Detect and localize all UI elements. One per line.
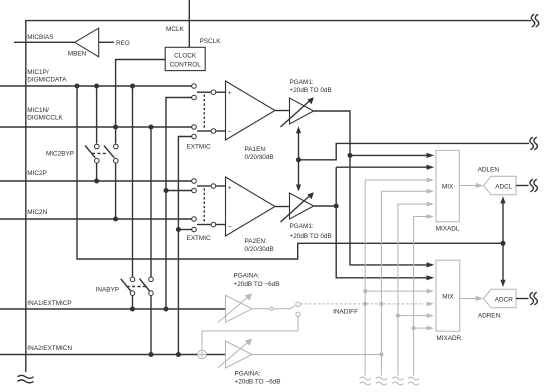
arrow source4 to MIXADL [427,214,434,219]
svg-text:MIX: MIX [442,183,454,190]
wire source3 to MIXADR [398,315,428,317]
junction digmic at ADC link [501,241,506,246]
svg-text:EXTMIC: EXTMIC [187,235,212,242]
svg-text:MIXADR: MIXADR [436,335,461,342]
wire INA2 [0,354,198,356]
buffer MBEN [75,28,99,57]
wire INABYP to INA2 [150,296,152,355]
svg-text:CLOCK: CLOCK [174,53,197,60]
break squiggle source 3 [392,377,403,385]
wire clock control to DIGMICCLK [116,60,166,144]
arrow PGAM1 to MIXADL [427,153,435,158]
junction MIC2N bypass [113,217,118,222]
svg-text:INA1/EXTMICP: INA1/EXTMICP [27,300,71,307]
junction PGAINA2 mix net [379,353,383,357]
wire PA2 minus alt contact [178,229,191,231]
svg-text:ADREN: ADREN [478,313,501,320]
wire PGAINA2 output [252,354,381,356]
arrow source1 to MIXADL [427,178,434,183]
wire PGAINA1 output [252,308,270,310]
amplifier PGAM2 [281,192,314,222]
svg-text:PSCLK: PSCLK [200,38,222,45]
wire EXTMICP routing vertical [166,98,192,310]
wire DIGMICDATA route to ADC [77,86,503,259]
amplifier PGAM1 [281,97,314,127]
wire PA2 minus input [216,224,226,226]
wire PA1 minus input [216,130,226,132]
wire REG [99,41,114,43]
junction source3 adr [396,314,400,318]
junction MIC1P bypass [94,84,99,89]
svg-text:+20dB TO 0dB: +20dB TO 0dB [290,233,332,240]
wire mix source 1 [365,180,427,376]
op-amp PA2 [226,177,276,236]
junction MIC1N clock [113,125,118,130]
svg-text:MIXADL: MIXADL [436,226,460,233]
arrow PGAM2 to MIXADL [427,165,435,170]
wire summer to PGAINA2 [206,354,225,356]
svg-text:−: − [228,224,232,231]
arrow PGAM2 to MIXADR [427,275,435,280]
svg-text:MIC2BYP: MIC2BYP [46,151,74,158]
arrow to MIXADR input4 [427,326,434,331]
wire INADIFF sum path [202,317,298,351]
arrow into PGAM1 [296,126,301,133]
wire EXTMICN routing vertical [178,137,191,355]
svg-text:MIC1N/: MIC1N/ [27,107,49,114]
break squiggle ADCR [530,292,537,305]
svg-text:PGAINA:: PGAINA: [235,371,261,378]
wire MICBIAS [14,41,75,43]
wire MIC1P [0,85,192,87]
svg-text:+20dB TO −6dB: +20dB TO −6dB [235,379,281,386]
wire PGAM1 output [314,111,428,265]
boundary break squiggle bottom left [18,375,34,383]
arrow into PGAM2 [296,185,301,192]
wire MCLK [188,0,190,47]
wire PGAM control junction [299,132,530,187]
wire MIC1P to INABYP [132,86,134,277]
svg-text:0/20/30dB: 0/20/30dB [245,246,274,253]
arrow into ADCL [476,183,484,188]
junction MIC2P bypass [94,179,99,184]
wire PA1 to PGAM1 [275,110,290,112]
wire MIXADL to ADCL [459,185,477,187]
wire MIXADR to ADCR [460,298,477,300]
arrow into ADCR [476,296,484,301]
adc ADCR [484,289,517,308]
svg-text:EXTMIC: EXTMIC [187,144,212,151]
break squiggle source 4 [408,377,419,385]
svg-text:+20dB TO −6dB: +20dB TO −6dB [234,281,280,288]
wire MIC2N [0,218,192,220]
svg-text:REG: REG [116,40,130,47]
junction inadiff source2 [379,302,383,306]
amplifier PGAINA2 [218,338,252,368]
wire PA2 to PGAM2 [275,206,290,208]
switch MIC2BYP [85,144,118,163]
wire MIC1N to INABYP [150,127,152,277]
junction MIC1N ina [149,125,154,130]
junction source4 adr [412,326,416,330]
svg-text:PGAM1:: PGAM1: [290,79,314,86]
wire PA2 plus alt contact [166,190,192,192]
switch INABYP [121,277,154,296]
junction MIC1P digmic [75,84,80,89]
arrow to MIXADR input3 [427,313,434,318]
svg-text:MICBIAS: MICBIAS [27,34,53,41]
wire ADCL ADCR link [502,203,504,281]
amplifier PGAINA1 [218,293,252,322]
svg-text:PGAM1:: PGAM1: [290,223,314,230]
arrow into ADCL bottom [500,196,505,203]
junction source1 adr [363,289,367,293]
mixer MIXADL [436,150,459,221]
wire INADIFF control line [300,303,424,305]
break squiggle ADCL [530,179,537,192]
svg-text:ADLEN: ADLEN [478,167,500,174]
svg-text:−: − [228,129,232,136]
wire ADCL output [516,185,529,187]
svg-text:PGAINA:: PGAINA: [234,273,260,280]
svg-text:MIC2P: MIC2P [27,170,47,177]
wire ADCR output [516,298,529,300]
wire PGAM2 output [314,167,428,278]
wire PA1 plus input [216,91,226,93]
arrow PGAM1 to MIXADR [427,262,435,267]
svg-text:INA2/EXTMICN: INA2/EXTMICN [27,345,72,352]
op-amp PA1 [226,81,276,140]
junction PGAM control [296,157,301,162]
svg-text:+: + [228,90,232,97]
arrow source2 to MIXADL [427,189,434,194]
break squiggle source 1 [360,377,371,385]
svg-text:DIGMICCLK: DIGMICCLK [27,115,63,122]
svg-text:PA1EN:: PA1EN: [245,146,267,153]
wire MIC2BYP switch to MIC2P [96,163,98,181]
wire INABYP to INA1 [132,296,134,310]
arrow to MIXADR input1 [427,289,434,294]
wire PGAM2 to MIXADL [336,166,427,168]
boundary break squiggle top right [531,14,538,27]
junction inadiff source1 [363,302,367,306]
wire PGAM1 to MIXADL [350,154,427,156]
wire mix source 4 [414,217,428,376]
break squiggle source 2 [376,377,387,385]
junction MIC1P ina [130,84,135,89]
svg-text:INABYP: INABYP [96,287,119,294]
switch EXTMIC PA1 [192,84,216,139]
svg-text:ADCR: ADCR [495,296,513,303]
wire MIC1N [0,126,192,128]
svg-text:MBEN: MBEN [68,51,87,58]
adc ADCL [484,176,517,195]
mixer MIXADR [436,260,460,331]
switch EXTMIC PA2 [192,179,216,232]
block CLOCK CONTROL [165,47,205,70]
junction PGAM2 branch [334,204,339,209]
junction EXTMICN PA2 [176,227,181,232]
wire source1 to MIXADR [365,290,427,292]
junction INA1 bypass [130,307,135,312]
svg-text:CONTROL: CONTROL [170,62,202,69]
svg-text:MIC2N: MIC2N [27,209,47,216]
wire MIC2P [0,180,192,182]
svg-text:0/20/30dB: 0/20/30dB [245,154,274,161]
arrow into ADCR top [500,280,505,287]
break squiggle control line [530,137,537,150]
junction EXTMICP INA1 [164,307,169,312]
svg-text:MIC1P/: MIC1P/ [27,69,49,76]
switch INADIFF [270,302,300,316]
svg-text:ADCL: ADCL [495,183,512,190]
svg-text:MCLK: MCLK [166,26,184,33]
arrow source3 to MIXADL [427,202,434,207]
junction EXTMICP PA2 [164,188,169,193]
arrow to MIXADR input2 [427,302,434,307]
wire INA1 [0,308,226,310]
svg-text:PA2EN:: PA2EN: [245,238,267,245]
junction INA2 bypass [149,352,154,357]
summer node [198,350,207,359]
svg-text:+: + [228,185,232,192]
wire mix source 2 [381,191,427,375]
svg-text:+20dB TO 0dB: +20dB TO 0dB [290,87,332,94]
wire MIC1P to MIC2BYP switch [96,86,98,144]
wire PA2 plus input [216,185,226,187]
svg-text:MIX: MIX [442,293,454,300]
wire mix source 3 [398,204,428,375]
svg-text:DIGMICDATA: DIGMICDATA [27,77,67,84]
junction PGAM1 branch [348,153,353,158]
wire MIC2BYP switch to MIC2N [115,163,117,219]
svg-text:INADIFF: INADIFF [333,309,358,316]
wire source4 to MIXADR [414,327,428,329]
junction EXTMICN INA2 [176,352,181,357]
